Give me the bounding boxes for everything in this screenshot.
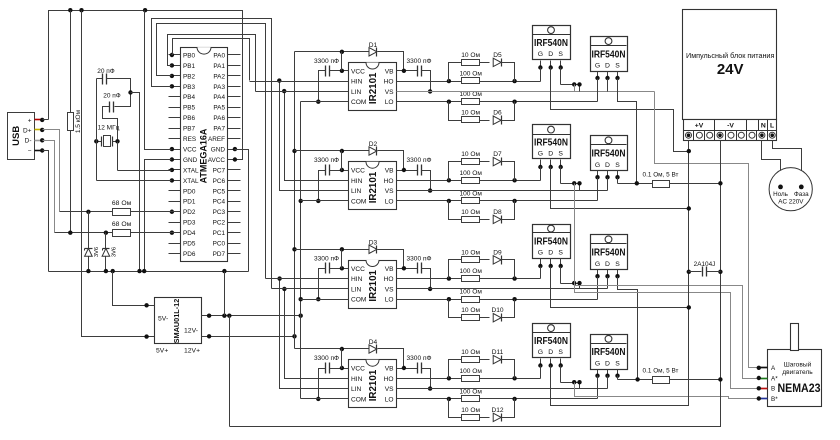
wire D2 anode to VCC pin xyxy=(341,151,343,171)
svg-text:PC2: PC2 xyxy=(213,220,226,227)
svg-text:IRF540N: IRF540N xyxy=(534,138,568,149)
pin S VT3 xyxy=(560,160,562,167)
svg-text:PD4: PD4 xyxy=(183,230,196,237)
wire XTAL1 net xyxy=(96,79,98,142)
svg-text:VCC: VCC xyxy=(183,146,197,153)
gate bypass 10 Om + D12 ch4 xyxy=(449,399,462,418)
svg-text:IR2101: IR2101 xyxy=(368,369,379,401)
wire LO4 line xyxy=(397,398,598,400)
wire VCC to +5V rail xyxy=(145,11,172,150)
svg-text:68 Ом: 68 Ом xyxy=(112,221,132,228)
svg-text:D: D xyxy=(605,63,610,70)
svg-text:VS: VS xyxy=(385,386,394,393)
wire drain VT4 to node ch2 xyxy=(607,178,609,191)
motor pin A* stub xyxy=(759,378,768,380)
pin PD7 (right 20) xyxy=(228,253,241,255)
svg-text:100 Ом: 100 Ом xyxy=(459,91,482,98)
wire USB- to ground bus xyxy=(43,151,49,272)
gate bypass 10 Om + D5 ch1 xyxy=(449,63,462,82)
gate bypass 10 Om + D10 ch3 xyxy=(449,300,462,318)
svg-text:LIN: LIN xyxy=(351,188,361,195)
pin PC0 (right 19) xyxy=(228,243,241,245)
svg-text:HO: HO xyxy=(384,376,394,383)
wire phase A* to motor xyxy=(575,184,759,379)
pin D VT8 xyxy=(607,370,609,376)
transistor VT5 IRF540N high-side ch3 xyxy=(533,225,571,259)
svg-text:12V+: 12V+ xyxy=(184,348,200,355)
resistor 100 Om LO ch4 xyxy=(462,396,480,402)
wire USB D+ to PD2 line xyxy=(43,130,60,212)
svg-text:COM: COM xyxy=(351,396,366,403)
wire LO1 to gate VT2 xyxy=(597,79,599,102)
svg-text:3300 пФ: 3300 пФ xyxy=(314,255,339,262)
svg-text:0.1 Ом, 5 Вт: 0.1 Ом, 5 Вт xyxy=(643,368,679,375)
svg-text:PD0: PD0 xyxy=(183,188,196,195)
resistor 100 Om HO ch1 xyxy=(462,78,480,84)
wire VS3 to node xyxy=(579,284,581,289)
svg-text:D-: D- xyxy=(25,138,32,145)
svg-text:S: S xyxy=(558,349,563,356)
svg-text:D6: D6 xyxy=(493,110,502,117)
wire PB0 loop to HIN1 xyxy=(172,39,250,81)
pin PA2 (right 3) xyxy=(228,75,241,77)
svg-text:3300 пФ: 3300 пФ xyxy=(406,58,431,65)
wire VS3 line xyxy=(397,288,608,290)
resistor 100 Om LO ch2 xyxy=(462,198,480,204)
wire source VT5 to node ch3 xyxy=(560,267,562,284)
svg-text:VCC: VCC xyxy=(351,366,365,373)
pin PB4 (left 5) xyxy=(169,96,181,98)
svg-text:PC1: PC1 xyxy=(213,230,226,237)
svg-text:PA7: PA7 xyxy=(213,126,225,133)
pin PD2 (left 16) xyxy=(169,211,181,213)
wire LO1 line xyxy=(397,101,598,103)
pin G VT8 xyxy=(597,370,599,376)
pin PA4 (right 5) xyxy=(228,96,241,98)
svg-text:3300 пФ: 3300 пФ xyxy=(314,157,339,164)
wire SMAU 12V+ line xyxy=(202,336,295,338)
svg-text:G: G xyxy=(595,162,600,169)
pin D VT4 xyxy=(607,171,609,178)
svg-text:AC 220V: AC 220V xyxy=(778,199,804,206)
wire source VT4 to sense A xyxy=(617,178,619,184)
wire drain VT6 to node ch3 xyxy=(607,277,609,289)
wire sense A to -V xyxy=(670,183,721,185)
wire switch node ch2 xyxy=(561,183,580,185)
pin PD6 (left 20) xyxy=(169,253,181,255)
pin D VT1 xyxy=(550,61,552,68)
pin PD4 (left 18) xyxy=(169,232,181,234)
svg-text:L: L xyxy=(770,123,774,130)
svg-text:68 Ом: 68 Ом xyxy=(112,200,132,207)
wire PD2 data line xyxy=(60,211,181,213)
wire HO4 to gate VT7 xyxy=(540,366,542,379)
svg-text:100 Ом: 100 Ом xyxy=(459,170,482,177)
wire drain VT1 to +V xyxy=(551,68,689,152)
svg-text:3300 пФ: 3300 пФ xyxy=(314,58,339,65)
wire source VT8 to sense B xyxy=(617,376,619,380)
svg-text:LO: LO xyxy=(385,297,394,304)
svg-text:10 Ом: 10 Ом xyxy=(461,307,480,314)
svg-text:PA6: PA6 xyxy=(213,115,225,122)
svg-text:3300 пФ: 3300 пФ xyxy=(406,355,431,362)
gate driver U2 IR2101 ch1 xyxy=(349,63,397,111)
pin PA6 (right 7) xyxy=(228,117,241,119)
svg-text:VS: VS xyxy=(385,286,394,293)
wire PB1 loop to LIN1 xyxy=(168,35,256,92)
svg-text:24V: 24V xyxy=(717,61,744,78)
net 12V rail xyxy=(294,52,296,349)
svg-text:LIN: LIN xyxy=(351,286,361,293)
pin S VT2 xyxy=(617,72,619,79)
svg-text:10 Ом: 10 Ом xyxy=(461,151,480,158)
svg-text:VCC: VCC xyxy=(351,266,365,273)
svg-text:COM: COM xyxy=(351,297,366,304)
svg-text:D: D xyxy=(605,360,610,367)
svg-text:PC4: PC4 xyxy=(213,199,226,206)
svg-text:IRF540N: IRF540N xyxy=(592,49,626,60)
pin PC5 (right 14) xyxy=(228,190,241,192)
wire HO4 line xyxy=(397,378,541,380)
DC-DC converter U6 SMAU01L-12 xyxy=(155,298,202,344)
svg-text:HO: HO xyxy=(384,276,394,283)
svg-text:D: D xyxy=(548,250,553,257)
pin PD3 (left 17) xyxy=(169,222,181,224)
svg-text:LO: LO xyxy=(385,396,394,403)
wire VS2 to node xyxy=(579,184,581,191)
svg-text:AREF: AREF xyxy=(208,136,225,143)
svg-text:PD1: PD1 xyxy=(183,199,196,206)
svg-text:S: S xyxy=(558,51,563,58)
svg-text:100 Ом: 100 Ом xyxy=(459,71,482,78)
svg-text:Импульсный блок питания: Импульсный блок питания xyxy=(686,51,774,60)
sense line A with dot xyxy=(618,183,653,185)
wire USB+ to rail xyxy=(43,119,49,121)
transistor VT1 IRF540N high-side ch1 xyxy=(533,26,571,60)
svg-text:PA0: PA0 xyxy=(213,52,225,59)
net +5V top rail xyxy=(49,11,243,160)
pin D VT6 xyxy=(607,270,609,277)
svg-text:PC3: PC3 xyxy=(213,209,226,216)
svg-text:IRF540N: IRF540N xyxy=(534,38,568,49)
svg-text:10 Ом: 10 Ом xyxy=(461,407,480,414)
wire HO2 to gate VT3 xyxy=(540,167,542,181)
power supply 24V block xyxy=(683,10,777,120)
terminal circle 2 xyxy=(696,132,702,138)
svg-text:+: + xyxy=(28,117,32,124)
USB connector J1 xyxy=(8,113,35,160)
pin PB7 (left 8) xyxy=(169,128,181,130)
svg-text:B*: B* xyxy=(771,396,778,403)
transistor VT4 IRF540N low-side ch2 xyxy=(591,136,628,171)
svg-text:AVCC: AVCC xyxy=(208,157,226,164)
svg-text:20 пФ: 20 пФ xyxy=(103,93,121,100)
wire 12V- to bottom ground bus xyxy=(229,316,231,427)
pin S VT1 xyxy=(560,61,562,68)
svg-text:10 Ом: 10 Ом xyxy=(461,209,480,216)
USB pin - stub xyxy=(35,150,43,152)
pin PB2 (left 3) xyxy=(169,75,181,77)
pin PA5 (right 6) xyxy=(228,107,241,109)
svg-text:VCC: VCC xyxy=(351,168,365,175)
wire LO2 to gate VT4 xyxy=(597,178,599,201)
pin PB3 (left 4) xyxy=(169,86,181,88)
wire HIN4 line xyxy=(285,378,349,380)
AC 220V source xyxy=(769,168,812,211)
transistor VT7 IRF540N high-side ch4 xyxy=(533,324,571,358)
wire drain VT3 to +V xyxy=(551,167,689,209)
svg-text:G: G xyxy=(595,261,600,268)
svg-text:XTAL: XTAL xyxy=(183,167,199,174)
wire COM3 line xyxy=(301,299,349,301)
resistor 100 Om HO ch3 xyxy=(462,276,480,282)
svg-text:двигатель: двигатель xyxy=(782,369,813,376)
svg-text:LO: LO xyxy=(385,198,394,205)
svg-text:PC5: PC5 xyxy=(213,188,226,195)
pin AREF (right 9) xyxy=(228,138,241,140)
svg-text:PC7: PC7 xyxy=(213,167,226,174)
svg-text:VB: VB xyxy=(385,68,394,75)
svg-text:GND: GND xyxy=(183,157,198,164)
svg-text:HIN: HIN xyxy=(351,276,363,283)
resistor 1.5 kOm pullup xyxy=(70,11,72,113)
wire HO1 to gate VT1 xyxy=(540,68,542,82)
svg-text:3300 пФ: 3300 пФ xyxy=(314,355,339,362)
svg-text:HO: HO xyxy=(384,178,394,185)
wire GND-left to ground bus xyxy=(145,160,172,272)
svg-text:G: G xyxy=(538,151,543,158)
resistor 100 Om LO ch1 xyxy=(462,99,480,105)
svg-text:D8: D8 xyxy=(493,209,502,216)
svg-text:HIN: HIN xyxy=(351,376,363,383)
svg-text:PA4: PA4 xyxy=(213,94,225,101)
wire VS1 to node xyxy=(579,85,581,92)
svg-text:12 МГц: 12 МГц xyxy=(98,125,120,132)
wire phase B to motor xyxy=(575,284,759,389)
motor pin B stub xyxy=(759,388,768,390)
svg-text:HO: HO xyxy=(384,79,394,86)
resistor 0.1 Om 5W RS1 xyxy=(653,181,670,188)
svg-text:+V: +V xyxy=(695,123,704,130)
net -V rail and bottom bus xyxy=(230,141,721,427)
wire SMAU 5V- to ground bus xyxy=(113,272,155,306)
wire caps common to ground bus xyxy=(131,93,140,272)
pin PD1 (left 15) xyxy=(169,201,181,203)
svg-text:IR2101: IR2101 xyxy=(368,269,379,301)
svg-text:PC0: PC0 xyxy=(213,241,226,248)
pin XTAL (left 12) xyxy=(169,169,181,171)
terminal circle 5 xyxy=(728,132,734,138)
svg-text:S: S xyxy=(615,162,620,169)
terminal circle 4 xyxy=(717,132,723,138)
wire COM2 line xyxy=(301,200,349,202)
pin S VT6 xyxy=(617,270,619,277)
net ground bus xyxy=(49,271,249,273)
wire D3 anode to VCC pin xyxy=(341,250,343,269)
pin G VT7 xyxy=(540,359,542,370)
svg-text:Ноль: Ноль xyxy=(773,191,789,198)
transistor VT2 IRF540N low-side ch1 xyxy=(591,37,628,72)
svg-text:D7: D7 xyxy=(493,151,502,158)
svg-text:12V-: 12V- xyxy=(184,328,198,335)
terminal circle 7 xyxy=(749,132,755,138)
pin PC1 (right 18) xyxy=(228,232,241,234)
wire source VT6 to sense B xyxy=(618,277,638,380)
wire VS1 line xyxy=(397,91,655,93)
wire sense B to -V xyxy=(670,379,721,381)
wire USB D- to PD4 line xyxy=(43,141,55,233)
pin S VT4 xyxy=(617,171,619,178)
pin D VT2 xyxy=(607,72,609,79)
svg-text:PA1: PA1 xyxy=(213,63,225,70)
transistor VT6 IRF540N low-side ch3 xyxy=(591,235,628,270)
svg-text:S: S xyxy=(558,250,563,257)
stepper motor NEMA23 xyxy=(768,350,822,407)
pin GND (left 11) xyxy=(169,159,181,161)
wire D4 anode to VCC pin xyxy=(341,349,343,369)
svg-text:IRF540N: IRF540N xyxy=(534,336,568,347)
pin PC7 (right 12) xyxy=(228,169,241,171)
pin XTAL (left 13) xyxy=(169,180,181,182)
wire switch node ch4 xyxy=(561,382,580,384)
svg-text:IR2101: IR2101 xyxy=(368,72,379,104)
pin RES (left 9) xyxy=(169,138,181,140)
svg-text:GND: GND xyxy=(211,146,226,153)
svg-text:10 Ом: 10 Ом xyxy=(461,349,480,356)
terminal strip xyxy=(684,120,777,141)
zener diode 3V6 VD2 xyxy=(105,233,107,272)
svg-text:USB: USB xyxy=(11,126,22,146)
pin PB6 (left 7) xyxy=(169,117,181,119)
USB pin D- stub xyxy=(35,140,43,142)
wire HO3 line xyxy=(397,278,541,280)
transistor VT3 IRF540N high-side ch2 xyxy=(533,125,571,159)
wire source VT1 to node ch1 xyxy=(560,68,562,85)
svg-text:100 Ом: 100 Ом xyxy=(459,368,482,375)
wire phase A to motor xyxy=(655,92,759,368)
svg-text:3V6: 3V6 xyxy=(111,247,117,257)
svg-text:G: G xyxy=(538,51,543,58)
svg-text:PB2: PB2 xyxy=(183,73,196,80)
net driver COM rail xyxy=(300,102,302,399)
pin PB0 (left 1) xyxy=(169,54,181,56)
resistor 68 Om R2 xyxy=(113,209,131,216)
wire LIN4 line xyxy=(280,388,349,390)
pin PD0 (left 14) xyxy=(169,190,181,192)
pin PD5 (left 19) xyxy=(169,243,181,245)
svg-text:S: S xyxy=(615,261,620,268)
svg-text:PD5: PD5 xyxy=(183,241,196,248)
svg-text:PB3: PB3 xyxy=(183,84,196,91)
gate driver U3 IR2101 ch2 xyxy=(349,162,397,210)
resistor 0.1 Om 5W RS2 xyxy=(653,377,670,384)
wire node A stub xyxy=(574,85,576,92)
svg-text:S: S xyxy=(615,360,620,367)
svg-text:10 Ом: 10 Ом xyxy=(461,110,480,117)
svg-text:B: B xyxy=(771,386,775,393)
svg-text:IRF540N: IRF540N xyxy=(592,149,626,160)
svg-text:PD3: PD3 xyxy=(183,220,196,227)
svg-text:100 Ом: 100 Ом xyxy=(459,289,482,296)
wire LIN2 line xyxy=(280,190,349,192)
wire LO3 line xyxy=(397,299,598,301)
terminal circle 6 xyxy=(738,132,744,138)
svg-text:-V: -V xyxy=(727,123,734,130)
svg-text:100 Ом: 100 Ом xyxy=(459,190,482,197)
terminal circle 8 xyxy=(759,132,765,138)
wire SMAU 12V- line xyxy=(202,315,301,317)
svg-text:G: G xyxy=(595,63,600,70)
wire VS4 line xyxy=(397,388,608,390)
pin G VT3 xyxy=(540,160,542,172)
microcontroller U1 ATMEGA16A xyxy=(181,48,228,262)
gate bypass 10 Om + D6 ch1 xyxy=(449,102,462,121)
pin S VT7 xyxy=(560,359,562,366)
svg-text:VS: VS xyxy=(385,89,394,96)
svg-text:D+: D+ xyxy=(23,127,32,134)
wire COM1 line xyxy=(301,101,349,103)
svg-text:Фаза: Фаза xyxy=(794,191,809,198)
resistor 100 Om LO ch3 xyxy=(462,297,480,303)
svg-text:PB6: PB6 xyxy=(183,115,196,122)
svg-text:HIN: HIN xyxy=(351,178,363,185)
svg-text:PD6: PD6 xyxy=(183,251,196,258)
wire ground bus to 12V- line xyxy=(224,272,226,316)
wire switch node ch1 xyxy=(561,84,580,86)
wire HIN1 to LIN2 cross xyxy=(280,81,349,191)
svg-text:IRF540N: IRF540N xyxy=(592,248,626,259)
resistor 100 Om HO ch2 xyxy=(462,178,480,184)
wire LO3 to gate VT6 xyxy=(597,277,599,300)
svg-text:XTAL: XTAL xyxy=(183,178,199,185)
pin VCC (left 10) xyxy=(169,149,181,151)
wire D1 anode to VCC pin xyxy=(341,52,343,71)
wire HO3 to gate VT5 xyxy=(540,267,542,279)
pin G VT5 xyxy=(540,259,542,271)
svg-text:IRF540N: IRF540N xyxy=(534,237,568,248)
wire switch node ch3 xyxy=(561,283,580,285)
wire source VT7 to node ch4 xyxy=(560,366,562,383)
wire PB2 loop to HIN3 xyxy=(157,24,266,279)
pin S VT5 xyxy=(560,259,562,267)
svg-text:0.1 Ом, 5 Вт: 0.1 Ом, 5 Вт xyxy=(643,172,679,179)
svg-text:PA5: PA5 xyxy=(213,105,225,112)
svg-text:3300 пФ: 3300 пФ xyxy=(406,255,431,262)
motor pin B* stub xyxy=(759,398,768,400)
pin G VT4 xyxy=(597,171,599,178)
svg-text:IR2101: IR2101 xyxy=(368,171,379,203)
motor pin A stub xyxy=(759,367,768,369)
svg-text:D: D xyxy=(548,151,553,158)
svg-text:COM: COM xyxy=(351,99,366,106)
svg-text:2A104J: 2A104J xyxy=(694,261,716,268)
wire 5V+ feed to SMAU01L-12 xyxy=(82,11,155,337)
svg-text:D: D xyxy=(548,349,553,356)
svg-text:PB7: PB7 xyxy=(183,126,196,133)
pin D VT5 xyxy=(550,259,552,267)
resistor 100 Om HO ch4 xyxy=(462,376,480,382)
wire LIN3 to HIN4 cross xyxy=(285,289,349,379)
svg-text:D5: D5 xyxy=(493,52,502,59)
wire source VT3 to node ch2 xyxy=(560,167,562,184)
pin PA1 (right 2) xyxy=(228,65,241,67)
pin S VT8 xyxy=(617,370,619,376)
svg-text:HIN: HIN xyxy=(351,79,363,86)
svg-text:RES: RES xyxy=(183,136,196,143)
svg-text:PA3: PA3 xyxy=(213,84,225,91)
pin PC4 (right 15) xyxy=(228,201,241,203)
zener diode 3V6 VD1 xyxy=(88,212,90,272)
